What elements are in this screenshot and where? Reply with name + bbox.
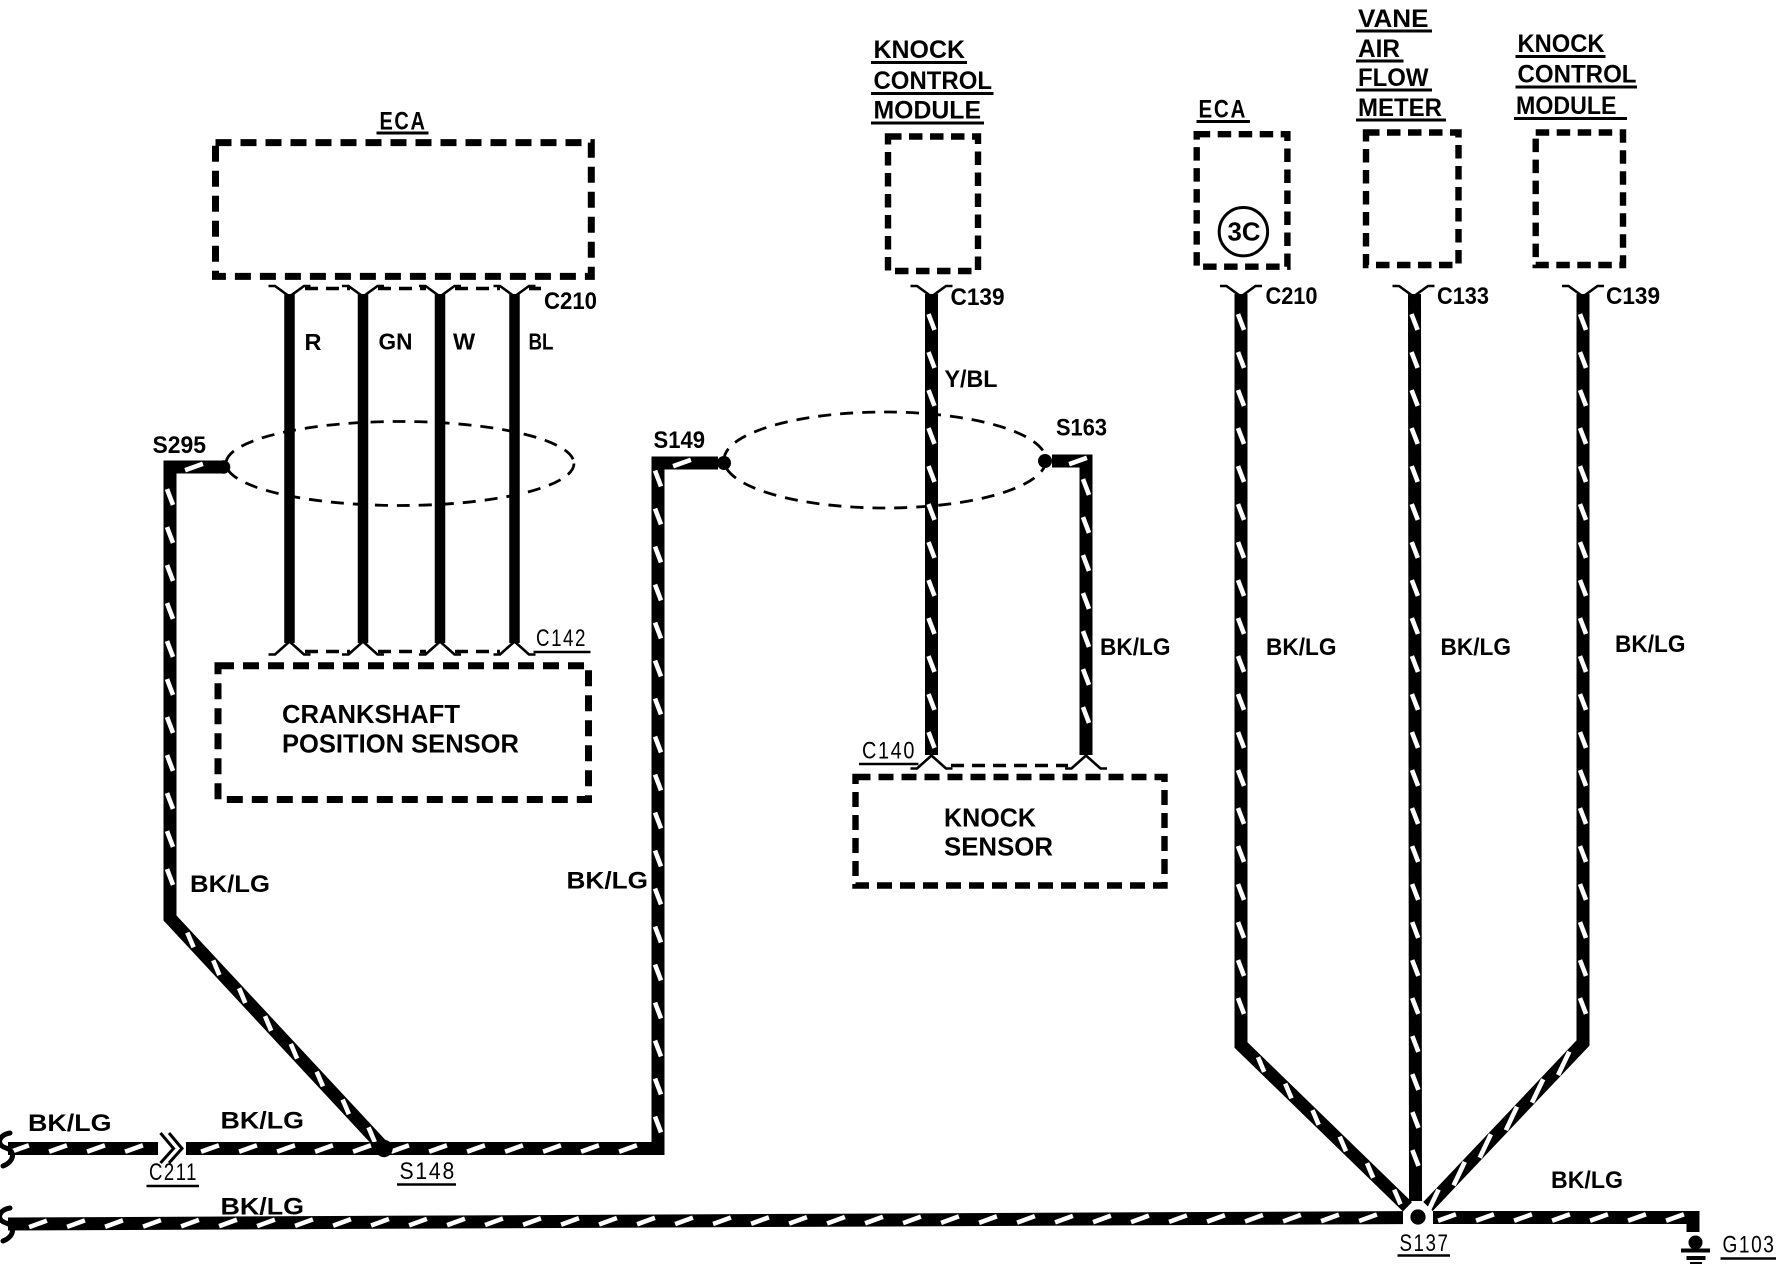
svg-text:ECA: ECA — [380, 108, 427, 136]
splice S137 junction dot — [1410, 1209, 1425, 1224]
svg-text:S137: S137 — [1400, 1230, 1450, 1257]
svg-text:C139: C139 — [1606, 283, 1660, 310]
splice S163 dot — [1038, 454, 1052, 468]
connector C210 forks under left ECA box — [269, 286, 542, 297]
connector C133 fork under vane air flow meter box — [1393, 286, 1435, 297]
wire Y/BL from knock control module C139 to knock sensor C140 — [929, 294, 935, 755]
twisted-pair shield ellipse between S149 and S163 — [724, 412, 1046, 508]
svg-text:S148: S148 — [400, 1158, 457, 1185]
label KNOCK SENSOR — [944, 803, 1053, 862]
vane air flow meter box — [1366, 133, 1459, 266]
knock control module box (top center) — [888, 137, 978, 272]
wire BL from ECA C210 to crankshaft sensor C142 — [509, 294, 520, 643]
label CRANKSHAFT POSITION SENSOR — [282, 699, 519, 759]
label KNOCK CONTROL MODULE (right) — [1514, 30, 1637, 120]
svg-text:3C: 3C — [1228, 217, 1261, 247]
svg-text:CONTROL: CONTROL — [1518, 61, 1637, 89]
twisted-pair shield ellipse around R/GN/W/BL wires — [226, 422, 574, 506]
svg-text:POSITION SENSOR: POSITION SENSOR — [282, 729, 519, 759]
splice label S148 — [397, 1158, 456, 1185]
svg-text:BK/LG: BK/LG — [28, 1110, 112, 1137]
svg-text:C142: C142 — [536, 625, 587, 652]
svg-text:FLOW: FLOW — [1358, 64, 1429, 92]
connector C139 fork under top-center knock control module — [911, 286, 953, 297]
svg-text:C140: C140 — [862, 738, 916, 765]
ECA module box (top left) — [216, 143, 592, 277]
label KNOCK CONTROL MODULE (top center) — [871, 36, 994, 125]
splice S149 dot — [717, 456, 731, 470]
svg-text:ECA: ECA — [1199, 96, 1248, 124]
wire BK/LG bottom horizontal, splice S137 to ground G103 — [1433, 1214, 1693, 1232]
svg-text:S295: S295 — [153, 432, 207, 459]
splice S295 dot — [217, 460, 231, 474]
svg-text:C133: C133 — [1437, 283, 1489, 310]
cut-wire hook, lower-left wire end — [0, 1208, 12, 1241]
wire GN from ECA C210 to crankshaft sensor C142 — [358, 294, 369, 643]
wire R from ECA C210 to crankshaft sensor C142 — [284, 294, 295, 643]
svg-text:BL: BL — [529, 329, 554, 355]
label C140 — [859, 738, 919, 765]
svg-text:BK/LG: BK/LG — [1100, 634, 1171, 661]
wire BK/LG from C211 through S148 up to splice S149 — [186, 460, 718, 1152]
svg-text:METER: METER — [1358, 94, 1442, 122]
circuit reference circle 3C inside right ECA box — [1219, 208, 1267, 256]
svg-text:KNOCK: KNOCK — [1518, 30, 1605, 58]
svg-text:Y/BL: Y/BL — [945, 366, 998, 393]
svg-text:CRANKSHAFT: CRANKSHAFT — [282, 699, 460, 729]
svg-text:C210: C210 — [544, 288, 597, 315]
wire BK/LG from knock control module C139 (right) down to splice S137 — [1427, 294, 1586, 1213]
ground symbol G103 — [1681, 1236, 1710, 1264]
svg-text:KNOCK: KNOCK — [944, 803, 1036, 833]
connector C140 forks above knock sensor box — [911, 756, 1108, 769]
label ECA (top left) — [377, 108, 429, 136]
svg-text:BK/LG: BK/LG — [221, 1194, 305, 1221]
label G103 — [1721, 1232, 1776, 1259]
cut-wire hook, upper-left wire end — [0, 1133, 12, 1166]
label VANE AIR FLOW METER — [1356, 5, 1446, 122]
svg-text:W: W — [453, 329, 476, 355]
svg-text:GN: GN — [379, 329, 413, 355]
splice S148 dot — [375, 1140, 392, 1157]
svg-text:CONTROL: CONTROL — [874, 67, 993, 95]
svg-text:S163: S163 — [1056, 415, 1107, 442]
svg-text:BK/LG: BK/LG — [190, 871, 270, 898]
label ECA (right) — [1197, 96, 1251, 124]
svg-text:VANE: VANE — [1358, 5, 1429, 33]
wire BK/LG from splice S295 down and diagonal to splice S148 — [167, 464, 384, 1148]
svg-text:KNOCK: KNOCK — [874, 36, 966, 64]
svg-text:BK/LG: BK/LG — [1551, 1167, 1623, 1194]
svg-text:G103: G103 — [1723, 1232, 1776, 1259]
svg-text:SENSOR: SENSOR — [944, 832, 1053, 862]
knock sensor box — [856, 777, 1165, 886]
crankshaft position sensor box — [218, 666, 589, 800]
svg-text:MODULE: MODULE — [874, 97, 982, 125]
wire BK/LG upper horizontal left segment (edge to connector C211) — [8, 1145, 158, 1151]
svg-text:C211: C211 — [149, 1159, 198, 1186]
svg-text:BK/LG: BK/LG — [221, 1108, 305, 1135]
wire W from ECA C210 to crankshaft sensor C142 — [435, 294, 446, 643]
svg-text:BK/LG: BK/LG — [1615, 631, 1686, 658]
wire BK/LG from vane air flow meter C133 down to splice S137 — [1412, 294, 1419, 1201]
knock control module box (right) — [1536, 133, 1623, 266]
ECA module box (right) — [1197, 134, 1288, 267]
connector C142 forks above crankshaft sensor box — [269, 642, 536, 655]
svg-text:R: R — [305, 329, 322, 355]
svg-text:BK/LG: BK/LG — [1266, 634, 1337, 661]
splice label S137 — [1398, 1230, 1451, 1257]
connector C210 fork under right ECA box — [1220, 286, 1262, 297]
svg-text:S149: S149 — [654, 427, 706, 454]
svg-text:C139: C139 — [951, 284, 1005, 311]
wire BK/LG from ECA C210 (right) down to splice S137 — [1238, 294, 1408, 1207]
svg-text:C210: C210 — [1266, 283, 1318, 310]
inline connector C211 chevrons — [161, 1133, 183, 1163]
wire BK/LG from splice S163 down to knock sensor C140 — [1052, 458, 1089, 755]
svg-text:BK/LG: BK/LG — [1441, 634, 1512, 661]
wire BK/LG bottom horizontal, left of splice S137 — [8, 1215, 1403, 1228]
svg-text:BK/LG: BK/LG — [567, 868, 649, 895]
label C142 — [534, 625, 591, 652]
svg-text:AIR: AIR — [1358, 35, 1400, 63]
connector C139 fork under right knock control module box — [1562, 286, 1604, 297]
svg-text:MODULE: MODULE — [1516, 92, 1617, 120]
label C211 — [147, 1159, 200, 1186]
